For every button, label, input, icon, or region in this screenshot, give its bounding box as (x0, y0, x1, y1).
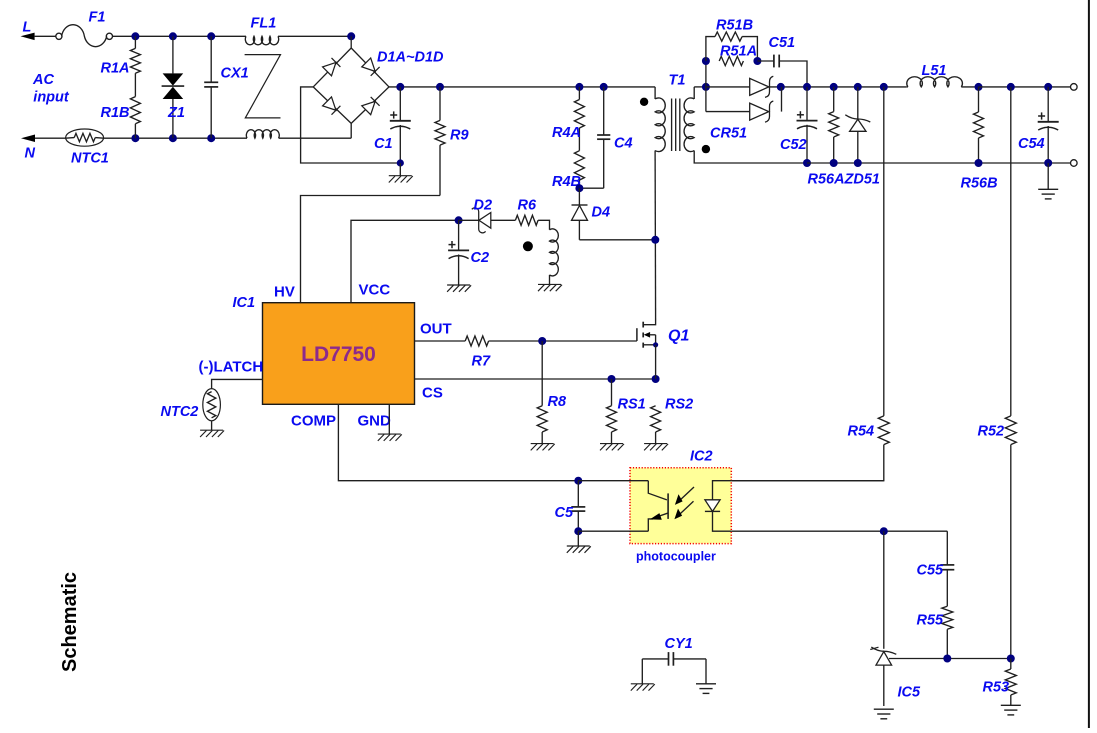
wire photocoupler pin4 to R54 node (731, 480, 884, 482)
resistor RS2 (651, 406, 661, 432)
ground CY1 left (hatched) (631, 683, 654, 685)
svg-text:CR51: CR51 (710, 126, 747, 142)
node drain-D4 (651, 236, 659, 244)
wire bus to primary (654, 87, 656, 99)
CY1 left leg (641, 659, 643, 684)
diode D1A (upper-left) (323, 62, 336, 75)
capacitor CX1 (210, 36, 212, 82)
svg-text:HV: HV (274, 284, 295, 301)
rail to output top (979, 86, 1071, 88)
resistor R54 (878, 416, 889, 445)
node divider (1007, 655, 1015, 663)
diode CR51 upper (750, 78, 769, 95)
phototransistor collector lead (648, 481, 667, 500)
ground GND pin (hatched) (378, 433, 401, 435)
wire D2 to R6 (491, 219, 516, 221)
svg-text:Q1: Q1 (668, 328, 689, 345)
ground RS1 (hatched) (600, 443, 623, 445)
resistor R56A (833, 87, 835, 112)
node Q1 body-source (653, 342, 658, 347)
wire snubber left vertical (705, 61, 707, 112)
resistor R52 (1005, 416, 1016, 445)
wire main bus (389, 86, 655, 88)
svg-text:R51B: R51B (716, 18, 753, 34)
phase dot secondary (702, 145, 710, 153)
wire aux winding to ground (549, 275, 551, 285)
IC U1 LD7750 body (263, 303, 415, 405)
wire R54 drop (883, 87, 885, 416)
wire CS pin (415, 378, 656, 380)
node C1 top (396, 83, 404, 91)
diode CR51 lower (750, 103, 769, 120)
node C2-D2 (455, 216, 463, 224)
svg-text:IC1: IC1 (233, 295, 256, 311)
wire C51 to rail (779, 61, 807, 87)
thermistor NTC2 (203, 389, 221, 421)
wire secondary top (693, 87, 695, 99)
rail secondary bottom (807, 162, 1071, 164)
resistor R51B loop (706, 37, 715, 61)
svg-text:R51A: R51A (720, 44, 757, 60)
wire C5 to phototransistor collector (578, 480, 648, 482)
ground NTC2 (hatched) (200, 429, 223, 431)
wire FL1 to bridge bottom (279, 137, 352, 139)
page frame line (1088, 0, 1090, 728)
zener ZD51 (857, 87, 859, 119)
inductor L51 (907, 86, 908, 88)
capacitor C5 (577, 481, 579, 507)
capacitor C4 (603, 87, 605, 135)
wire secondary bottom (694, 151, 807, 164)
wire R54 to photocoupler (731, 445, 884, 481)
wire IC5 cathode (883, 531, 885, 649)
resistor R56B (978, 87, 980, 112)
wire IC5 ref to divider (889, 658, 1011, 660)
node C54 bottom (1044, 159, 1052, 167)
svg-text:NTC1: NTC1 (71, 151, 109, 167)
svg-text:C55: C55 (917, 563, 945, 579)
svg-text:R6: R6 (518, 198, 537, 214)
node R4A top (575, 83, 583, 91)
terminal output+ (1071, 84, 1078, 91)
svg-text:C1: C1 (374, 136, 393, 152)
ground R53 (earth) (1001, 704, 1021, 706)
capacitor C52 (806, 87, 808, 120)
svg-text:D1A~D1D: D1A~D1D (377, 50, 444, 66)
ground C54 (earth) (1047, 163, 1049, 189)
svg-text:R8: R8 (548, 394, 567, 410)
wire primary bottom to Q1 drain (654, 151, 657, 322)
node L-Z1 (169, 32, 177, 40)
svg-text:Schematic: Schematic (59, 572, 81, 672)
pin GND stem (388, 404, 390, 434)
transistor Q1 source contact (643, 344, 655, 346)
resistor R7 (465, 336, 488, 346)
capacitor C51 (773, 55, 775, 68)
svg-text:R9: R9 (450, 128, 469, 144)
choke FL1 core Z (245, 55, 281, 118)
wire NTC1 to bridge (N rail) (104, 137, 247, 139)
photodiode of IC2 (705, 500, 720, 512)
svg-text:R55: R55 (917, 613, 945, 629)
ground aux winding (hatched) (538, 283, 561, 285)
terminal L arrow (21, 33, 35, 41)
svg-text:R1B: R1B (101, 105, 130, 121)
node N-CX1 (207, 134, 215, 142)
rail secondary top (706, 86, 907, 88)
wire C5 to phototransistor emitter (578, 530, 648, 532)
resistor R4B (574, 151, 584, 180)
svg-text:L51: L51 (922, 63, 947, 79)
svg-text:C54: C54 (1018, 136, 1045, 152)
diode D4 (578, 188, 580, 205)
ground R8 (hatched) (531, 443, 554, 445)
node R55 bottom (943, 655, 951, 663)
wire LATCH pin (212, 379, 263, 388)
T1 secondary winding (684, 98, 694, 152)
node C1 bottom (397, 159, 404, 166)
wire photocoupler pin3 (731, 530, 947, 532)
svg-text:FL1: FL1 (251, 16, 277, 32)
phase dot aux winding (523, 241, 533, 251)
wire VCC pin up and right (351, 220, 459, 302)
thermistor NTC1 (66, 129, 104, 146)
shunt regulator IC5 (871, 647, 896, 654)
ground RS2 (hatched) (644, 443, 667, 445)
svg-text:RS1: RS1 (618, 397, 646, 413)
node R56A bottom (830, 159, 838, 167)
wire fuse to node (112, 35, 246, 37)
svg-text:GND: GND (358, 413, 392, 430)
resistor R53 (1010, 659, 1012, 670)
svg-text:Z1: Z1 (167, 105, 185, 121)
wire bridge left vertex down (301, 87, 401, 163)
T1 core (671, 99, 673, 152)
phototransistor emitter lead (648, 519, 653, 531)
bridge frame D1A~D1D (350, 36, 352, 48)
wire R52 drop (1010, 87, 1012, 416)
CY1 right leg (705, 659, 707, 684)
svg-text:F1: F1 (89, 10, 106, 26)
wire Q1 source to CS (655, 345, 657, 379)
node L-CX1 (207, 32, 215, 40)
svg-text:CX1: CX1 (221, 66, 249, 82)
svg-text:NTC2: NTC2 (161, 404, 199, 420)
diode D1C (lower-left) (323, 97, 336, 110)
svg-text:R4A: R4A (552, 125, 581, 141)
node CS-RS1 (608, 375, 616, 383)
resistor R1B (130, 97, 140, 124)
svg-text:N: N (25, 146, 36, 162)
node R4B bottom (575, 184, 583, 192)
svg-text:C5: C5 (555, 505, 574, 521)
wire FL1 to bridge top (278, 35, 351, 37)
svg-text:LD7750: LD7750 (301, 343, 376, 366)
svg-text:input: input (33, 89, 70, 105)
light arrow 2 (678, 501, 694, 516)
svg-text:ZD51: ZD51 (844, 172, 880, 188)
resistor R4A (578, 87, 580, 100)
node C4 top (600, 83, 608, 91)
phase dot primary (640, 98, 648, 106)
node R56A top (830, 83, 838, 91)
svg-text:D4: D4 (592, 205, 611, 221)
node CS-RS2-source (652, 375, 660, 383)
svg-text:CY1: CY1 (665, 636, 693, 652)
transistor Q1 body arrow (644, 332, 650, 338)
resistor R1A (134, 36, 136, 48)
node IC5 drop (880, 527, 888, 535)
svg-text:AC: AC (32, 72, 54, 88)
ground IC5 (earth) (874, 708, 894, 710)
fuse F1 (56, 33, 62, 39)
photodiode lead top (713, 481, 732, 500)
transistor Q1 drain contact (643, 321, 655, 325)
node R56B bottom (975, 159, 983, 167)
optocoupler IC2 box (630, 468, 731, 544)
transistor Q1 channel (642, 322, 644, 328)
node ZD51 bottom (854, 159, 862, 167)
node R9 top (436, 83, 444, 91)
resistor R8 (541, 341, 543, 406)
resistor R9 (439, 87, 441, 121)
capacitor C1 (399, 87, 401, 120)
svg-text:photocoupler: photocoupler (636, 550, 716, 564)
svg-text:R53: R53 (983, 680, 1010, 696)
TVS Z1 (172, 36, 174, 73)
T1 primary winding (655, 98, 665, 152)
resistor R6 (515, 215, 538, 225)
ground C5 (hatched) (577, 531, 579, 546)
svg-text:OUT: OUT (420, 321, 452, 338)
svg-text:C2: C2 (471, 250, 490, 266)
wire CR51 lower row (706, 111, 750, 113)
capacitor C54 (1047, 87, 1049, 121)
svg-text:R56B: R56B (961, 176, 998, 192)
wire R9 to HV pin (301, 196, 441, 303)
svg-text:IC5: IC5 (898, 685, 922, 701)
svg-text:R52: R52 (978, 424, 1005, 440)
capacitor C2 (458, 220, 460, 250)
svg-text:L: L (23, 20, 32, 36)
transistor Q1 gate (636, 328, 638, 341)
svg-text:R56A: R56A (808, 172, 845, 188)
diode D2 (zener) (459, 219, 479, 221)
node C52 top (803, 83, 811, 91)
terminal N arrow (21, 135, 35, 143)
svg-text:D2: D2 (474, 198, 493, 214)
svg-text:T1: T1 (669, 73, 686, 89)
node C54 top (1044, 83, 1052, 91)
node ZD51 top (854, 83, 862, 91)
wire R52 down (1010, 445, 1012, 659)
ground C1 (hatched) (399, 163, 401, 176)
node C5 bottom (574, 527, 582, 535)
node sec rail left (702, 83, 710, 91)
node CR51 upper out (777, 83, 785, 91)
svg-text:C4: C4 (614, 136, 633, 152)
node snubber left (702, 57, 710, 65)
node R56B top (975, 83, 983, 91)
ground CY1 right (earth) (696, 683, 716, 685)
svg-text:R1A: R1A (101, 61, 130, 77)
svg-text:R54: R54 (848, 424, 875, 440)
node gate-R8 (538, 337, 546, 345)
light arrow 1 (678, 487, 694, 502)
wire C55 drop (946, 531, 948, 565)
wire COMP pin to C5 (338, 404, 578, 480)
resistor R51A (719, 56, 743, 65)
wire OUT pin to R7 (415, 340, 466, 342)
node C5 top (574, 477, 582, 485)
node N-R1B (131, 134, 139, 142)
resistor R55 (942, 606, 953, 629)
svg-text:VCC: VCC (359, 282, 391, 299)
diode D1D (lower-right) (362, 101, 375, 114)
node bridge top (347, 32, 355, 40)
resistor RS1 (611, 379, 613, 406)
node R52 drop (1007, 83, 1015, 91)
node N-Z1 (169, 134, 177, 142)
svg-text:COMP: COMP (291, 413, 336, 430)
svg-text:R7: R7 (472, 354, 491, 370)
node R51 right (753, 57, 761, 65)
node C52 bottom (803, 159, 811, 167)
svg-text:CS: CS (422, 385, 443, 402)
svg-text:C51: C51 (769, 35, 796, 51)
NTC2 ground stem (211, 421, 213, 430)
wire D4 to drain line (579, 239, 655, 241)
wire R7 to gate (489, 340, 637, 342)
node L-R1A (131, 32, 139, 40)
svg-text:C52: C52 (780, 137, 807, 153)
wire C4 to R4B (579, 187, 603, 189)
ground C2 (hatched) (447, 284, 470, 286)
svg-text:IC2: IC2 (690, 449, 713, 465)
wire R51 to C51 (757, 60, 774, 62)
capacitor CY1 (642, 658, 668, 660)
wire R6 to aux winding (538, 220, 549, 230)
capacitor C55 (940, 564, 954, 566)
photodiode lead bottom (713, 511, 732, 531)
terminal output- (1071, 160, 1078, 167)
aux winding of T1 (550, 229, 559, 276)
svg-text:RS2: RS2 (665, 397, 693, 413)
svg-text:(-)LATCH: (-)LATCH (199, 359, 264, 376)
choke FL1 bottom winding (246, 130, 279, 139)
diode D1B (upper-right) (362, 58, 375, 71)
phototransistor base bar (667, 493, 669, 519)
node R54 drop (880, 83, 888, 91)
choke FL1 top winding (245, 36, 278, 45)
